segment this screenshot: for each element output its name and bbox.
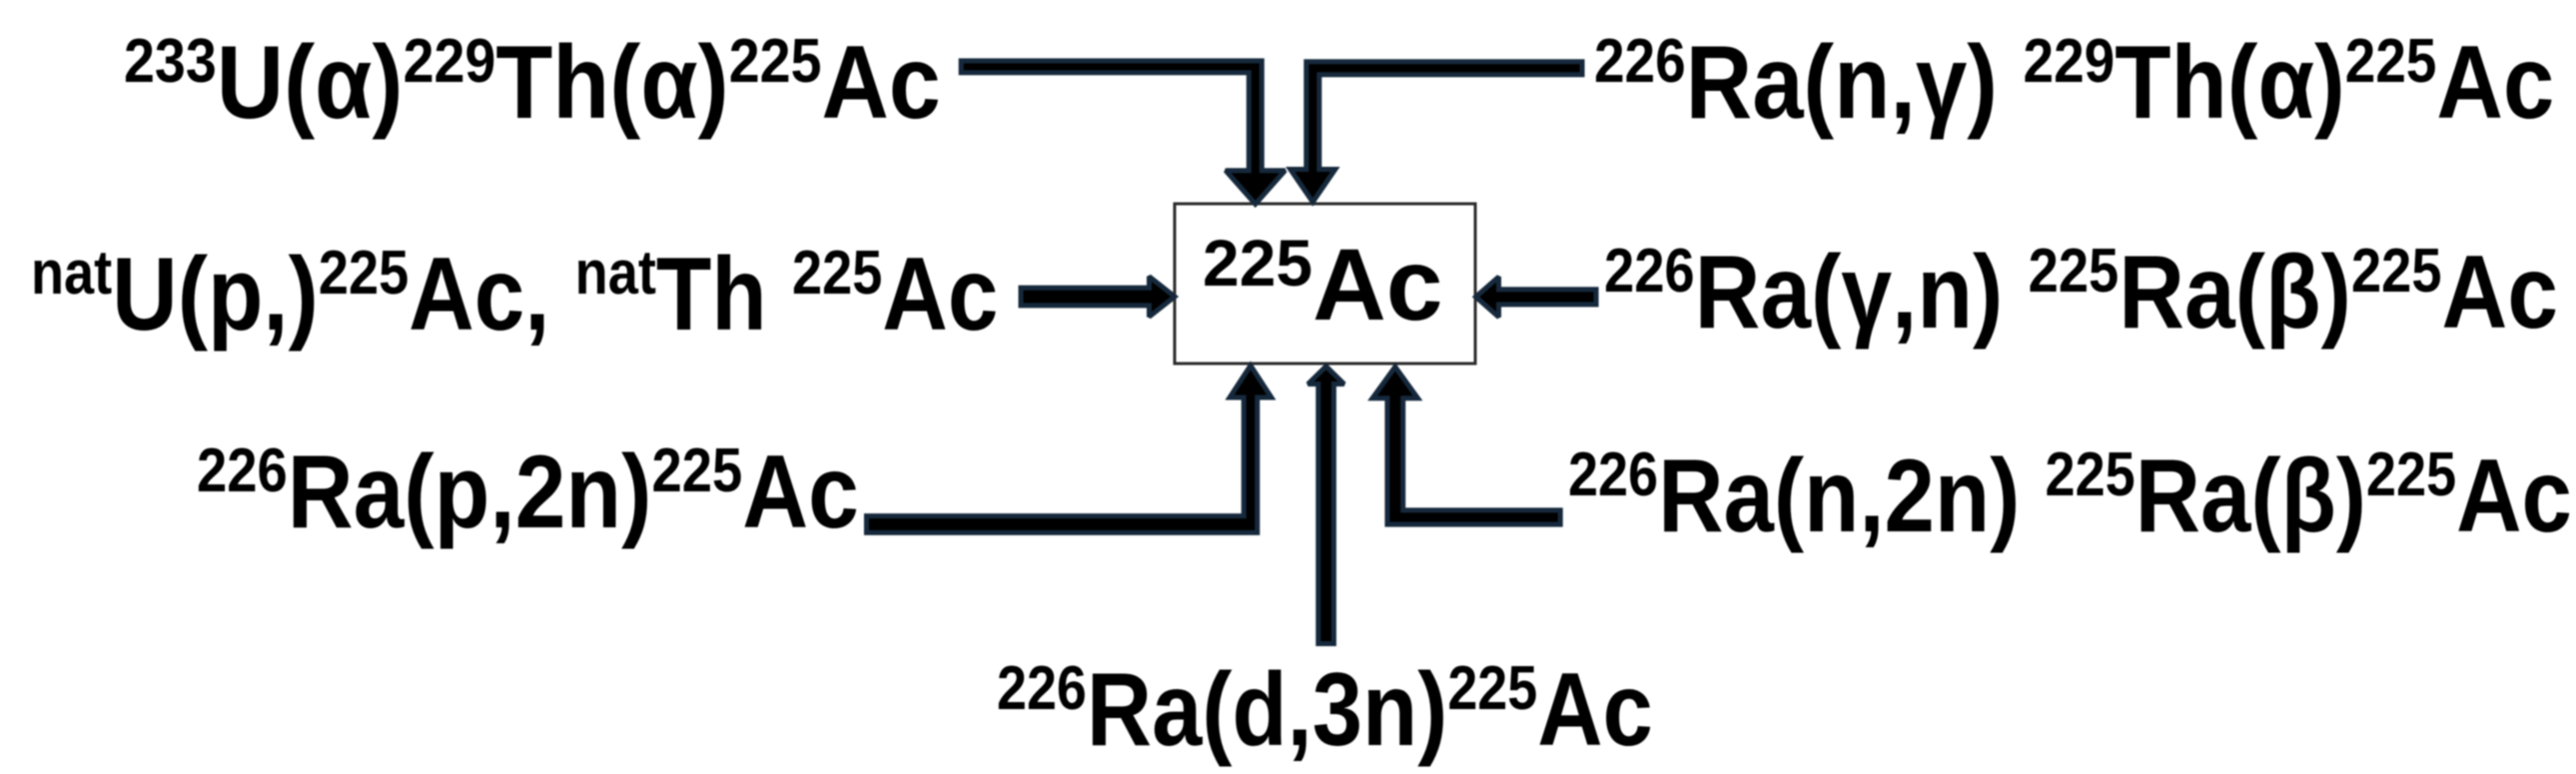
svg-text:226Ra(γ,n) 225Ra(β)225Ac: 226Ra(γ,n) 225Ra(β)225Ac <box>1604 234 2558 350</box>
arrow from 226Ra(g,n) route (into box right) <box>1476 277 1597 317</box>
label natU(p,)225Ac, natTh 225Ac <box>31 236 998 352</box>
label 226Ra(n,2n) 225Ra(b)225Ac <box>1568 437 2572 553</box>
arrow from 226Ra(n,2n) route (elbow up into box bottom) <box>1372 367 1560 524</box>
svg-text:natU(p,)225Ac, natTh 225Ac: natU(p,)225Ac, natTh 225Ac <box>31 236 998 352</box>
label 226Ra(n,g) 229Th(a)225Ac <box>1594 24 2554 140</box>
label 226Ra(g,n) 225Ra(b)225Ac <box>1604 234 2558 350</box>
label 226Ra(p,2n)225Ac <box>197 432 859 549</box>
box 225Ac <box>1175 204 1475 364</box>
svg-text:226Ra(p,2n)225Ac: 226Ra(p,2n)225Ac <box>197 432 859 549</box>
arrow from 226Ra(d,3n) route (up into box bottom) <box>1308 367 1344 644</box>
svg-text:226Ra(n,2n) 225Ra(β)225Ac: 226Ra(n,2n) 225Ra(β)225Ac <box>1568 437 2572 553</box>
label 226Ra(d,3n)225Ac <box>997 651 1653 767</box>
arrow from 226Ra(n,g) route (elbow down into box top) <box>1290 62 1582 203</box>
label 233U(a)229Th(a)225Ac <box>124 24 941 140</box>
arrow from 233U route (elbow down into box top) <box>961 61 1285 204</box>
arrow from 226Ra(p,2n) route (elbow up into box bottom) <box>867 366 1272 533</box>
svg-text:226Ra(d,3n)225Ac: 226Ra(d,3n)225Ac <box>997 651 1653 767</box>
arrow from natU route (into box left) <box>1021 277 1175 317</box>
svg-text:233U(α)229Th(α)225Ac: 233U(α)229Th(α)225Ac <box>124 24 941 140</box>
box label 225Ac <box>1203 226 1443 342</box>
svg-text:226Ra(n,γ) 229Th(α)225Ac: 226Ra(n,γ) 229Th(α)225Ac <box>1594 24 2554 140</box>
